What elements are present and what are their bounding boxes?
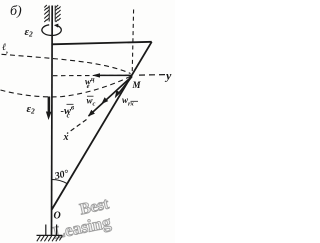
svg-text:-wвc: -wвc <box>61 104 75 120</box>
svg-text:wцe: wцe <box>85 76 95 90</box>
svg-text:wc: wc <box>87 96 96 108</box>
svg-text:30°: 30° <box>53 168 70 182</box>
svg-text:M: M <box>132 80 142 90</box>
svg-text:б): б) <box>10 4 22 19</box>
svg-text:ℓ,: ℓ, <box>2 42 8 55</box>
svg-text:O: O <box>54 211 61 222</box>
svg-text:ε2: ε2 <box>27 103 36 116</box>
svg-text:y: y <box>164 69 172 83</box>
svg-text:ε2: ε2 <box>25 26 34 39</box>
svg-text:x: x <box>63 132 69 143</box>
svg-text:wrx: wrx <box>122 95 135 108</box>
